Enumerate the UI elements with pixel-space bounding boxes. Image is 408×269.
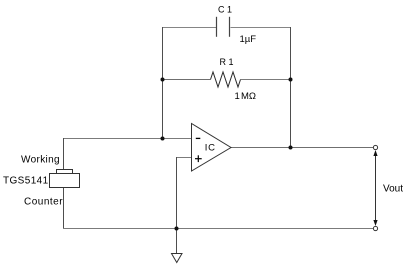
op-amp minus pin mark [196, 137, 201, 139]
wire left feedback vertical [162, 27, 164, 139]
svg-text:1MΩ: 1MΩ [235, 91, 257, 102]
wire sensor counter vertical [63, 188, 65, 230]
svg-text:Counter: Counter [24, 197, 63, 208]
svg-text:R 1: R 1 [220, 57, 234, 67]
junction dot R1 right [289, 78, 293, 82]
wire non-inverting to ground rail vertical [176, 157, 178, 229]
junction dot output [289, 146, 293, 150]
output terminal bottom [373, 226, 377, 230]
wire R1 right lead [241, 79, 292, 81]
capacitor C1 [217, 17, 230, 37]
sensor TGS5141 body [50, 174, 80, 188]
junction dot R1 left [161, 78, 165, 82]
wire top rail horizontal right of C1 [231, 27, 292, 29]
ground symbol [172, 254, 183, 263]
Vout arrow up [373, 150, 377, 156]
wire ground stub vertical [176, 229, 178, 254]
resistor R1 [211, 72, 241, 87]
svg-text:IC: IC [205, 142, 216, 153]
wire R1 left lead [162, 79, 211, 81]
wire inverting input horizontal [63, 138, 192, 140]
wire right feedback vertical [290, 27, 292, 148]
svg-text:TGS5141: TGS5141 [3, 176, 49, 187]
wire non-inverting input horizontal [176, 157, 192, 159]
wire output horizontal [231, 147, 374, 149]
svg-text:Working: Working [21, 155, 60, 166]
wire bottom rail horizontal [63, 228, 374, 230]
wire top rail horizontal left of C1 [162, 27, 217, 29]
output terminal top [373, 145, 377, 149]
junction dot ground rail [175, 227, 179, 231]
svg-text:Vout: Vout [383, 184, 403, 195]
wire sensor working vertical [63, 138, 65, 170]
op-amp plus pin mark [195, 155, 202, 162]
Vout measure line [375, 153, 377, 224]
sensor TGS5141 top electrode [57, 170, 73, 174]
Vout arrow down [373, 220, 377, 226]
svg-text:1µF: 1µF [240, 34, 257, 45]
junction dot inverting input [161, 137, 165, 141]
svg-text:C 1: C 1 [218, 4, 232, 14]
op-amp U1 triangle [192, 124, 232, 172]
